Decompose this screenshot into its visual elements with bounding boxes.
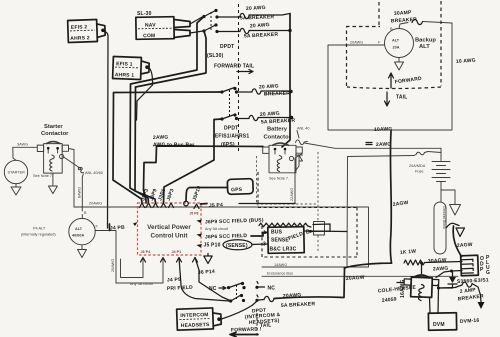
box SL-30 NAV/COM bbox=[136, 17, 174, 40]
svg-text:J3 P4: J3 P4 bbox=[141, 250, 152, 254]
wire battery bottom to ground block bbox=[440, 182, 442, 202]
svg-text:B&C LR3C: B&C LR3C bbox=[270, 247, 297, 253]
bus wire from breakers down to battery contactor bbox=[282, 14, 290, 148]
wire row2 to 5A breaker bbox=[259, 299, 265, 302]
svg-text:40/60A: 40/60A bbox=[72, 234, 85, 238]
wire 2AGW top to plug bbox=[453, 226, 461, 257]
svg-text:P4 ALT: P4 ALT bbox=[33, 227, 46, 231]
svg-text:BREAKER: BREAKER bbox=[264, 91, 291, 98]
wire switch A to breaker CB1 bbox=[217, 16, 240, 18]
wire EFIS1-switch pole1 common down to VPCU pin J5P3 bbox=[113, 92, 222, 203]
wire junction to DVM right bbox=[437, 288, 440, 313]
svg-text:Endurance Bus: Endurance Bus bbox=[267, 271, 293, 275]
svg-text:EFIS 1: EFIS 1 bbox=[116, 61, 133, 68]
wire breaker to frame corner bbox=[423, 22, 452, 24]
pin arrow J6P6 bbox=[197, 234, 203, 238]
motor STARTER bbox=[4, 160, 27, 183]
svg-text:INTERCOM: INTERCOM bbox=[180, 312, 208, 319]
svg-text:2AWG: 2AWG bbox=[376, 141, 392, 148]
breaker CB1 5A bbox=[240, 13, 249, 18]
wire CB1 to bus bbox=[249, 14, 290, 16]
wire left tab stub bbox=[397, 282, 404, 284]
wire backup ALT F to left edge and frame bbox=[328, 23, 452, 130]
svg-text:G: G bbox=[486, 270, 490, 276]
breaker intercom 5A bbox=[264, 296, 274, 301]
regulator B&C LR3C bbox=[268, 227, 304, 254]
ground arrow filled (2 amp) bbox=[478, 302, 485, 309]
svg-text:ANL 40/60: ANL 40/60 bbox=[85, 171, 103, 175]
wire battery contactor 2AWG feed to VPCU bbox=[144, 146, 264, 203]
white strip Any 5A circuit bbox=[204, 226, 234, 232]
switch intercom row1 bbox=[227, 286, 230, 289]
pin arrow J5P10(sense) bbox=[197, 244, 203, 248]
svg-text:DPDT: DPDT bbox=[220, 44, 234, 50]
breaker 2 AMP bbox=[462, 282, 472, 287]
svg-text:20 AWG: 20 AWG bbox=[259, 83, 279, 90]
wire J5P4 row bbox=[201, 203, 208, 206]
svg-text:Control Unit: Control Unit bbox=[151, 233, 189, 240]
wire 20AGW riser to 1K line bbox=[345, 263, 392, 268]
svg-text:J4 P1: J4 P1 bbox=[172, 250, 182, 254]
junction contactor top on 1K line bbox=[421, 263, 423, 274]
svg-text:BUS: BUS bbox=[271, 230, 283, 236]
svg-text:J5 P4: J5 P4 bbox=[209, 202, 223, 209]
top pin arrows into VPCU bbox=[140, 203, 200, 209]
svg-text:See Note 7.: See Note 7. bbox=[33, 174, 53, 178]
wire EFIS1 down to VPCU bundle bbox=[137, 67, 153, 120]
wire plug NAV to switch A bbox=[190, 17, 203, 25]
alternator Backup ALT 20A bbox=[385, 29, 414, 58]
svg-text:AHRS 2: AHRS 2 bbox=[70, 35, 90, 42]
svg-text:See Note 7.: See Note 7. bbox=[269, 177, 289, 181]
svg-text:Vertical Power: Vertical Power bbox=[147, 224, 191, 231]
wire plug COM to switch B bbox=[190, 31, 203, 33]
bottom pin arrows of VPCU bbox=[141, 258, 198, 263]
breaker CB3 bbox=[252, 89, 261, 94]
svg-text:TAIL: TAIL bbox=[396, 95, 408, 101]
diode across battery contactor bbox=[296, 155, 303, 161]
wire contactor top to plug prong2 bbox=[436, 271, 462, 278]
svg-text:20AWG: 20AWG bbox=[350, 41, 363, 45]
dashed firewall around backup alt bbox=[346, 1, 441, 89]
breaker CB4 bbox=[249, 115, 258, 120]
svg-text:(SENSE): (SENSE) bbox=[226, 243, 248, 249]
ground below starter bbox=[11, 184, 21, 195]
svg-text:b: b bbox=[264, 230, 267, 236]
ground hollow arrow (battery) bbox=[450, 205, 461, 216]
fuse ANL 40/60 bbox=[80, 167, 84, 172]
box GPS bbox=[227, 179, 253, 195]
wire SL30 pole2 common down to VPCU pin J3P6 bbox=[135, 31, 206, 203]
svg-text:J4 P9: J4 P9 bbox=[167, 277, 181, 284]
svg-text:DVM: DVM bbox=[433, 322, 445, 328]
svg-text:2AGW: 2AGW bbox=[457, 242, 473, 249]
wire 3AWG starter to contactor bbox=[13, 147, 38, 160]
svg-text:30AGW: 30AGW bbox=[428, 258, 447, 265]
fuse ANL 40 bbox=[296, 140, 308, 145]
wire EFIS2 to 20AWG bus bbox=[105, 32, 109, 229]
svg-text:ANL 40: ANL 40 bbox=[297, 127, 310, 131]
box INTERCOM HEADSETS bbox=[177, 308, 222, 331]
ground block bbox=[434, 202, 446, 254]
box EFIS2/AHRS2 bbox=[68, 19, 106, 42]
svg-text:DPDT: DPDT bbox=[224, 126, 238, 132]
svg-text:J5 P8: J5 P8 bbox=[190, 212, 199, 216]
wire B label to ALT circle bbox=[81, 215, 83, 219]
svg-text:EFIS 2: EFIS 2 bbox=[71, 24, 88, 31]
pin arrow J6P9 bbox=[197, 220, 203, 224]
arrow forward (left) bbox=[230, 332, 258, 336]
fuse holder on dashed line bbox=[314, 222, 325, 236]
svg-text:COM: COM bbox=[143, 33, 155, 39]
wire CB4 to bus bbox=[258, 117, 292, 119]
wire contactor to DVM left bbox=[429, 298, 432, 314]
wire VPCU pin1 to any-5A bracket bbox=[121, 258, 144, 278]
wire J5P4 to 22AWG vertical bbox=[239, 202, 295, 205]
svg-text:J6 P14: J6 P14 bbox=[198, 269, 215, 276]
svg-text:Ground Block: Ground Block bbox=[442, 206, 446, 229]
wire GPS to node bbox=[186, 188, 227, 202]
fuse 20A/MDA bbox=[414, 152, 428, 156]
dashed mechanical link EFIS1 switch bbox=[229, 90, 231, 117]
wire CB2 to bus bbox=[249, 30, 290, 32]
alternator ALT 40/60A bbox=[69, 218, 95, 244]
svg-text:(SL30): (SL30) bbox=[207, 53, 224, 59]
svg-text:Battery: Battery bbox=[267, 127, 288, 133]
svg-text:Fuse: Fuse bbox=[415, 170, 423, 174]
wire switch B to breaker CB2 bbox=[217, 31, 240, 33]
svg-text:20AWG: 20AWG bbox=[89, 202, 102, 206]
svg-text:AWG to Bus Bar: AWG to Bus Bar bbox=[153, 143, 194, 149]
svg-text:ALT: ALT bbox=[419, 44, 430, 50]
wire regulator B output bbox=[305, 230, 348, 233]
dashed enclosure See Note 7 (printed) bbox=[257, 152, 319, 253]
dashed mechanical link intercom switch bbox=[236, 285, 238, 299]
contactor Cole-Hersee bbox=[404, 274, 439, 301]
wire starter contactor to 20AWG avionics line bbox=[69, 149, 75, 208]
svg-text:ALT: ALT bbox=[75, 227, 83, 231]
svg-text:10AWG: 10AWG bbox=[374, 126, 393, 133]
connector plug COM bbox=[174, 30, 190, 38]
wire J4P9 PRI FIELD to alternator field bbox=[116, 258, 163, 284]
svg-text:HEADSETS: HEADSETS bbox=[181, 322, 210, 329]
wire 8AWG fuse to alternator B bbox=[82, 174, 83, 211]
VPCU red dashed box bbox=[138, 203, 202, 255]
node J5P10 circle on top edge bbox=[184, 201, 189, 206]
svg-text:TAIL: TAIL bbox=[260, 322, 272, 329]
svg-text:5A BREAKER: 5A BREAKER bbox=[240, 14, 275, 21]
ground hollow arrow (hand) bbox=[456, 228, 465, 237]
wire resistor to regulator B bbox=[310, 224, 330, 232]
wire 2AWG battery contactor to battery bbox=[305, 143, 442, 148]
svg-text:20A/MDA: 20A/MDA bbox=[409, 164, 426, 168]
svg-text:FORWARD TAIL: FORWARD TAIL bbox=[214, 64, 254, 70]
wire SL30 pole1 common down to VPCU pin J5P9 bbox=[130, 17, 204, 204]
wire VPCU pin4 (J6P14) down to switch bbox=[195, 258, 230, 301]
connector plug NAV bbox=[174, 20, 190, 28]
wire switch C to breaker CB3 bbox=[237, 91, 253, 93]
switch B (SL30 DPDT pole 2) bbox=[202, 29, 205, 32]
wire fuse to endurance feed bbox=[347, 156, 414, 268]
svg-text:20A: 20A bbox=[393, 46, 400, 50]
svg-text:STARTER: STARTER bbox=[8, 171, 26, 175]
svg-text:NC: NC bbox=[209, 286, 217, 292]
wire J6P6 to regulator pin b bbox=[251, 233, 268, 237]
label TAIL with down arrow bbox=[385, 92, 390, 106]
wire contactor to fuse ANL40/60 bbox=[64, 157, 79, 168]
wire sense to regulator pin 3 bbox=[252, 243, 268, 246]
wire 2AGW hand from backup frame down to 1K resistor line bbox=[390, 131, 391, 263]
breaker 30 AMP bbox=[412, 19, 423, 24]
svg-text:GPS: GPS bbox=[231, 187, 243, 193]
svg-text:SENSE: SENSE bbox=[271, 238, 289, 244]
wire EFIS1-switch pole2 common down to VPCU pin J6P3 bbox=[164, 119, 223, 203]
svg-text:3AWG: 3AWG bbox=[17, 143, 28, 147]
wire 1K to plug prong1 bbox=[425, 262, 462, 263]
svg-text:3: 3 bbox=[263, 242, 266, 248]
breaker CB2 5A bbox=[240, 28, 249, 33]
battery bbox=[440, 148, 442, 160]
label FORWARD with up arrow bbox=[389, 73, 394, 88]
ground hollow arrow below VPCU right bbox=[204, 254, 212, 264]
svg-text:Contactor: Contactor bbox=[41, 131, 69, 137]
zener diode S3560 bbox=[448, 271, 457, 288]
svg-text:(internally regulated): (internally regulated) bbox=[21, 233, 56, 237]
switch intercom row2 bbox=[229, 299, 232, 302]
ground below backup alt bbox=[395, 58, 404, 71]
svg-text:8AWG: 8AWG bbox=[78, 187, 82, 198]
svg-text:22AWG: 22AWG bbox=[290, 188, 294, 201]
wire breaker to ground arrow bbox=[472, 284, 481, 303]
wire 20AWG avionics bus rectangle bbox=[74, 207, 369, 267]
ground below starter contactor bbox=[48, 173, 57, 194]
svg-text:J4 PB: J4 PB bbox=[110, 225, 125, 232]
svg-text:Contactor: Contactor bbox=[264, 135, 292, 141]
svg-text:NAV: NAV bbox=[145, 22, 156, 28]
wire VPCU pin3 to intercom switch row2 bbox=[179, 258, 229, 302]
svg-text:(EFIS1/AHRS1: (EFIS1/AHRS1 bbox=[213, 134, 249, 140]
box EFIS1/AHRS1 bbox=[113, 57, 150, 80]
svg-text:P: P bbox=[480, 267, 484, 273]
wire diode bottom to contactor right tab bbox=[438, 285, 453, 289]
voltmeter DVM bbox=[428, 313, 456, 330]
svg-text:Backup: Backup bbox=[415, 38, 436, 44]
resistor field (wavy) bbox=[259, 223, 311, 227]
dashed hand enclosure around regulator bbox=[258, 172, 357, 257]
wire battery ground branch bbox=[441, 190, 455, 205]
svg-text:Starter: Starter bbox=[44, 124, 63, 130]
wire 14AWG endurance bus line bbox=[262, 275, 458, 277]
svg-text:30AMP: 30AMP bbox=[394, 10, 413, 17]
wire intercom to switch bbox=[222, 301, 258, 319]
svg-text:2AWG: 2AWG bbox=[153, 134, 169, 141]
wire CB3 to bus bbox=[261, 90, 291, 92]
wire switch D to breaker CB4 bbox=[237, 118, 250, 120]
wire breaker to endurance riser bbox=[274, 268, 345, 299]
dashed divider bottom bbox=[256, 313, 258, 336]
dashed firewall divider vertical bbox=[238, 4, 240, 152]
svg-text:AHRS 1: AHRS 1 bbox=[115, 72, 135, 79]
wire battery contactor right to 22AWG sense bbox=[295, 154, 302, 204]
resistor 1K 1W bbox=[404, 260, 425, 265]
svg-text:Any 5A circuit: Any 5A circuit bbox=[205, 227, 229, 231]
svg-text:J5 P10: J5 P10 bbox=[204, 243, 221, 249]
svg-text:14AWG: 14AWG bbox=[274, 263, 287, 267]
wire backup ALT B through 30A breaker bbox=[399, 23, 408, 29]
wire ground block to hand ground arrow bbox=[447, 223, 460, 227]
dashed mechanical link SL30 switch bbox=[210, 12, 212, 30]
ground below ALT 40/60A bbox=[78, 245, 87, 258]
plug connector bbox=[461, 255, 479, 276]
switch C (EFIS1 DPDT pole 1) bbox=[220, 90, 223, 93]
svg-text:NC: NC bbox=[268, 286, 276, 292]
wire F to field 20AWG down bbox=[96, 231, 117, 284]
svg-text:SL-30: SL-30 bbox=[137, 11, 152, 17]
svg-text:20AWG: 20AWG bbox=[111, 259, 115, 272]
switch A (SL30 DPDT pole 1) bbox=[202, 15, 205, 18]
svg-text:20 AWG: 20 AWG bbox=[246, 5, 266, 12]
switch D (EFIS1 DPDT pole 2) bbox=[220, 117, 223, 120]
wire to 2AMP breaker bbox=[439, 285, 463, 288]
svg-text:ALT: ALT bbox=[392, 39, 400, 43]
